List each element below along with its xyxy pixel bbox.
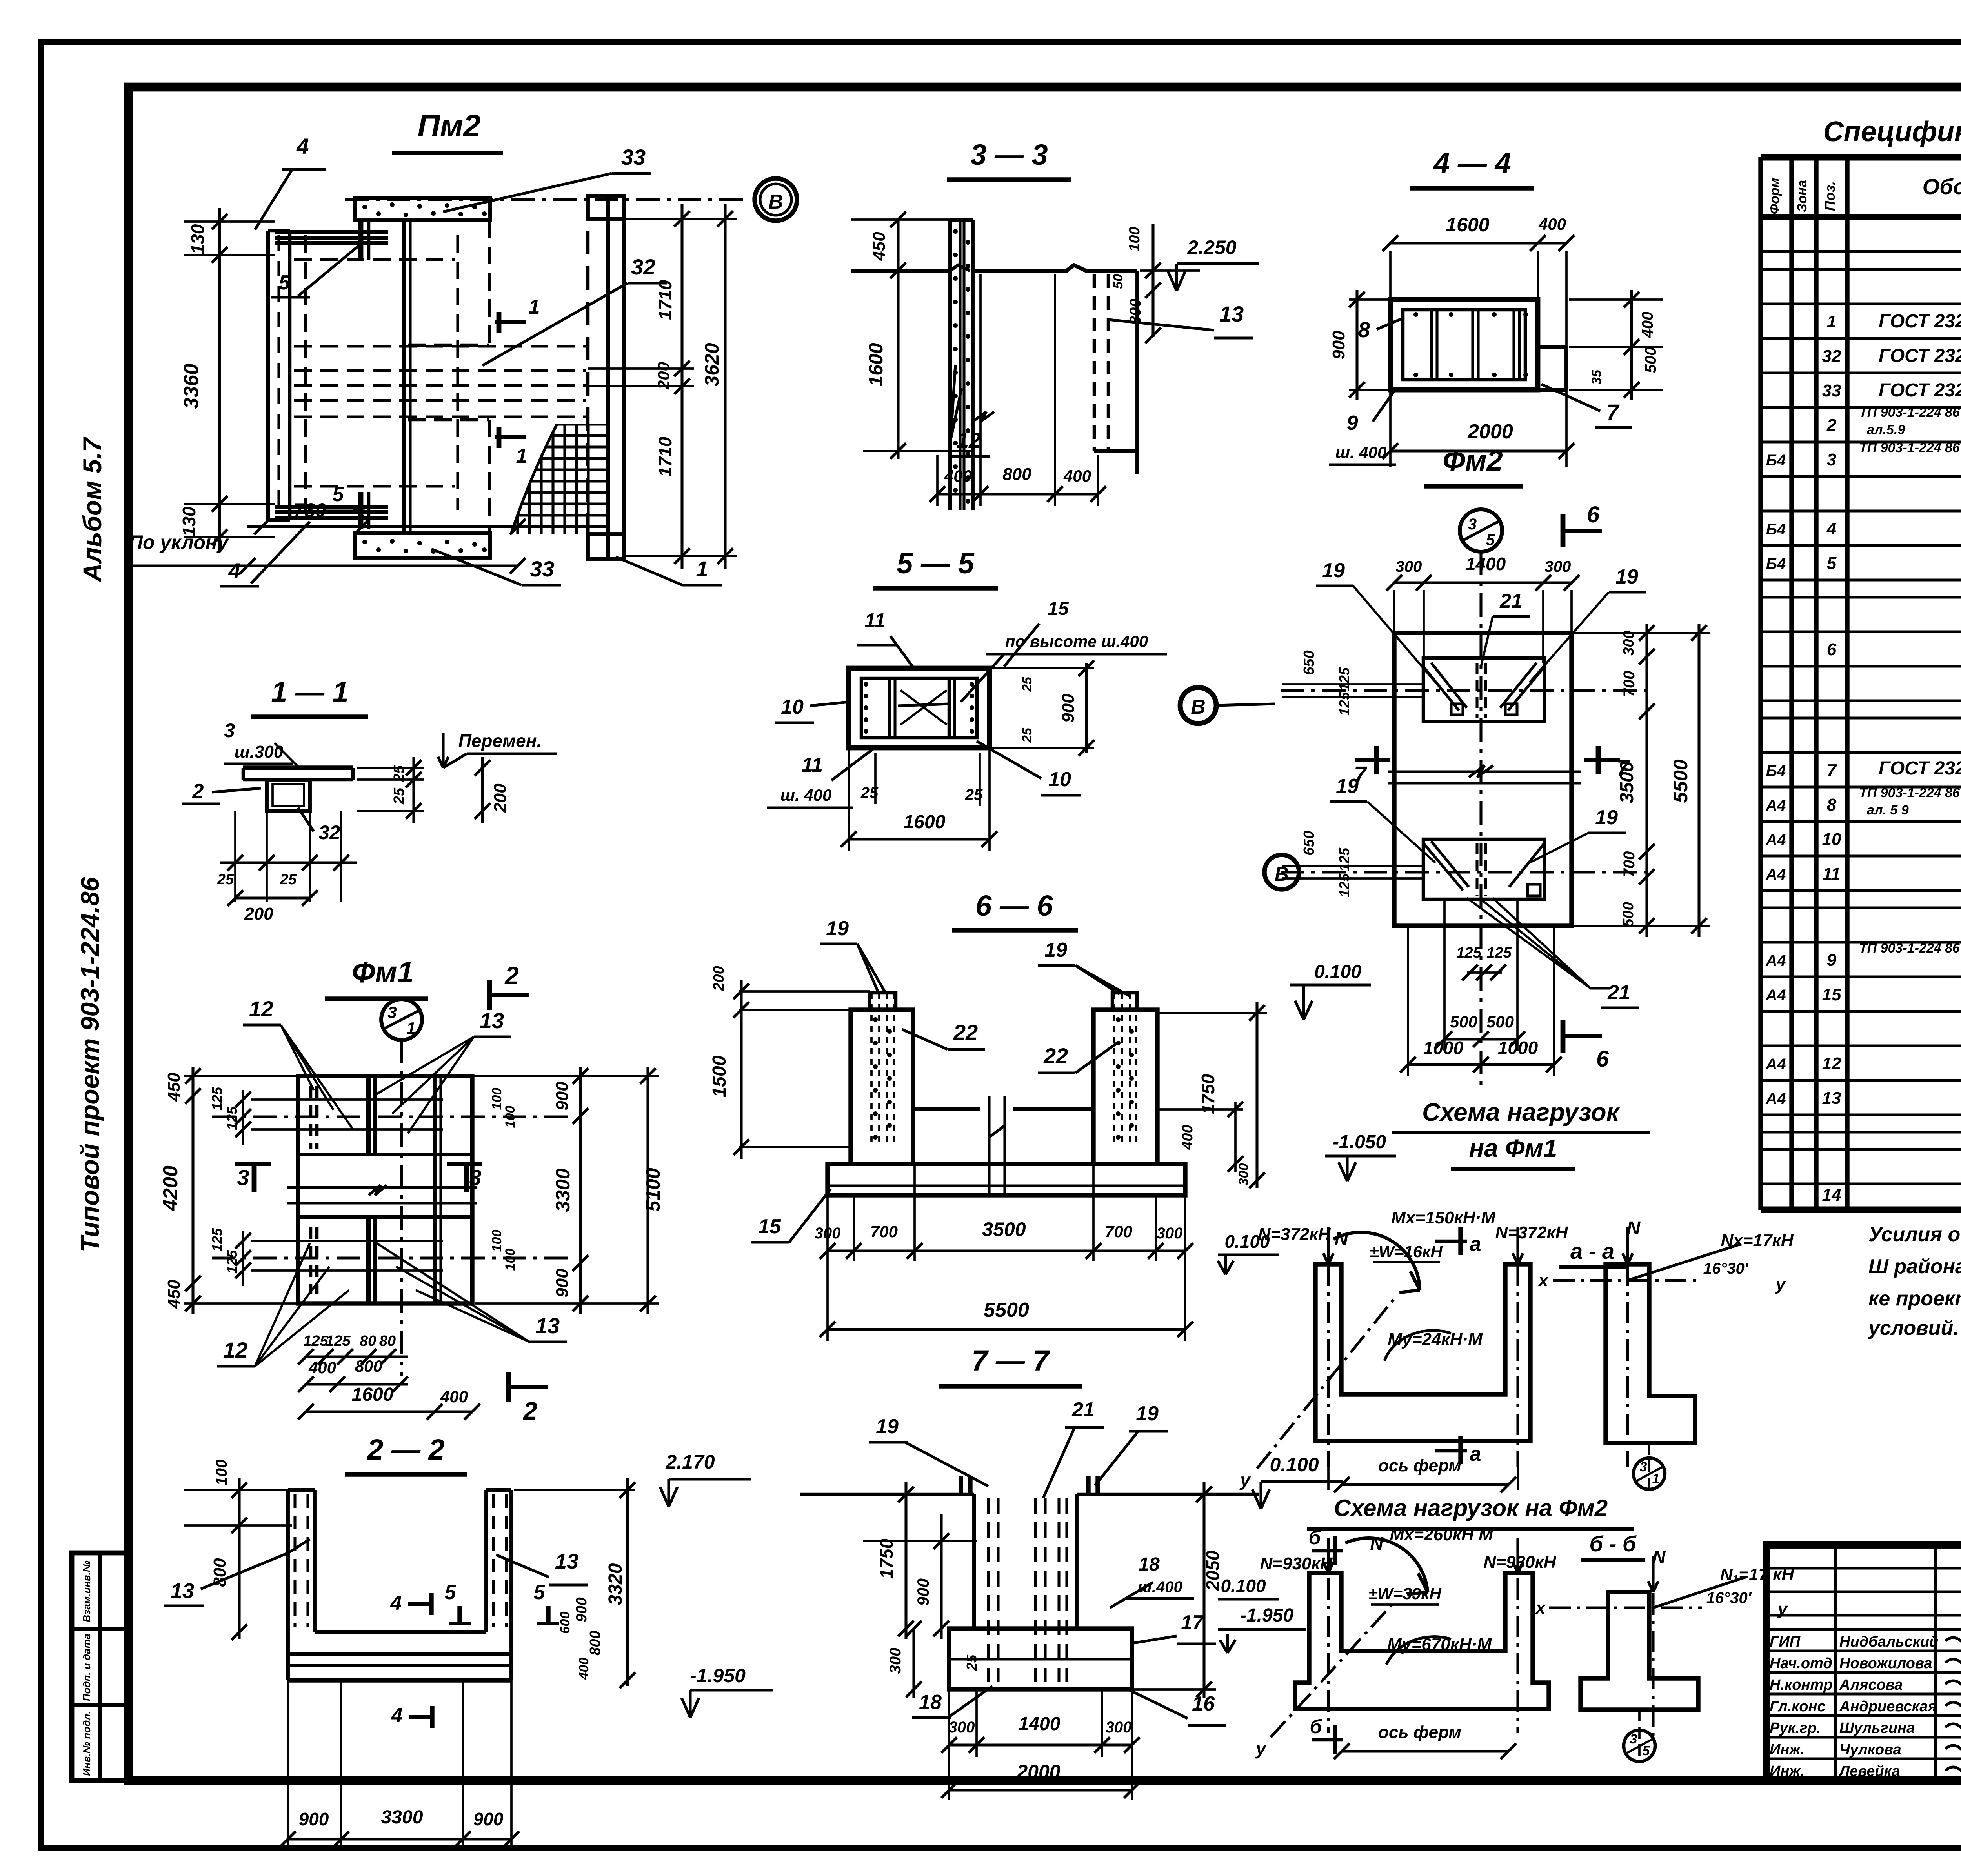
svg-text:7: 7 [1827, 761, 1837, 780]
svg-text:125: 125 [1336, 847, 1352, 871]
svg-text:700: 700 [1621, 851, 1638, 878]
svg-text:0.100: 0.100 [1224, 1231, 1270, 1252]
svg-text:6: 6 [1827, 640, 1837, 659]
svg-text:100: 100 [489, 1088, 504, 1110]
svg-text:-1.950: -1.950 [1240, 1605, 1293, 1626]
svg-text:32: 32 [318, 822, 340, 843]
svg-text:1750: 1750 [876, 1538, 897, 1579]
svg-text:5: 5 [333, 483, 344, 506]
svg-text:13: 13 [535, 1313, 560, 1338]
svg-text:а: а [1470, 1443, 1481, 1465]
svg-text:ГОСТ 23279-85: ГОСТ 23279-85 [1879, 311, 1961, 332]
svg-text:125: 125 [209, 1087, 225, 1111]
svg-text:N=930кН: N=930кН [1260, 1554, 1333, 1573]
svg-text:ТП 903-1-224 86: ТП 903-1-224 86 [1859, 785, 1960, 800]
svg-text:80: 80 [379, 1333, 396, 1349]
svg-text:100: 100 [1126, 227, 1143, 251]
svg-text:4 — 4: 4 — 4 [1433, 147, 1511, 180]
svg-text:2: 2 [1826, 416, 1837, 435]
svg-text:Зона: Зона [1795, 180, 1810, 212]
svg-text:1 — 1: 1 — 1 [271, 676, 348, 708]
svg-text:100: 100 [489, 1230, 504, 1252]
svg-text:300: 300 [949, 1719, 975, 1736]
svg-text:N: N [1627, 1218, 1641, 1239]
svg-text:1: 1 [529, 296, 540, 318]
svg-text:900: 900 [1059, 694, 1078, 723]
svg-text:400: 400 [1538, 215, 1566, 233]
svg-text:400: 400 [944, 467, 972, 485]
svg-text:ТП 903-1-224 86: ТП 903-1-224 86 [1859, 440, 1960, 455]
svg-text:А4: А4 [1765, 797, 1786, 814]
svg-text:400: 400 [1639, 312, 1656, 338]
svg-text:х: х [1538, 1271, 1549, 1290]
svg-text:200: 200 [654, 362, 673, 390]
svg-text:13: 13 [171, 1579, 194, 1603]
svg-text:35: 35 [1589, 369, 1604, 385]
svg-text:12: 12 [1822, 1054, 1841, 1073]
svg-text:Инж.: Инж. [1770, 1763, 1805, 1780]
svg-text:130: 130 [187, 224, 208, 254]
svg-text:В: В [1275, 863, 1289, 885]
svg-text:у: у [1255, 1738, 1267, 1759]
svg-text:3: 3 [1630, 1732, 1637, 1747]
svg-text:3620: 3620 [701, 343, 723, 386]
svg-text:125: 125 [209, 1228, 225, 1252]
svg-text:125: 125 [1486, 945, 1512, 961]
svg-text:650: 650 [1301, 650, 1317, 675]
svg-text:Пм2: Пм2 [417, 108, 480, 143]
svg-text:Спецификация на Пм2,Фм1: Спецификация на Пм2,Фм1 [1823, 116, 1961, 147]
svg-text:ось ферм: ось ферм [1378, 1456, 1461, 1475]
svg-text:5500: 5500 [1670, 759, 1692, 803]
svg-text:а - а: а - а [1570, 1239, 1614, 1263]
svg-text:11: 11 [1823, 864, 1841, 883]
svg-text:13: 13 [1219, 302, 1244, 326]
svg-text:Мх=260кН М: Мх=260кН М [1390, 1525, 1493, 1544]
svg-text:Б4: Б4 [1766, 521, 1786, 538]
svg-text:2: 2 [523, 1397, 537, 1425]
svg-text:700: 700 [1105, 1222, 1132, 1241]
svg-text:14: 14 [1822, 1185, 1841, 1205]
svg-text:1600: 1600 [352, 1384, 394, 1405]
svg-text:Типовой проект 903-1-224.86: Типовой проект 903-1-224.86 [75, 876, 104, 1252]
svg-text:Обозначение: Обозначение [1923, 174, 1961, 199]
svg-text:±W=16кН: ±W=16кН [1370, 1242, 1443, 1261]
svg-text:ГОСТ 23279-85: ГОСТ 23279-85 [1879, 345, 1961, 366]
svg-text:3500: 3500 [982, 1218, 1026, 1240]
svg-text:Форм: Форм [1767, 178, 1782, 215]
svg-text:2: 2 [192, 780, 204, 803]
svg-text:Б4: Б4 [1766, 762, 1786, 780]
svg-text:Гл.конс: Гл.конс [1770, 1698, 1826, 1715]
svg-text:13: 13 [1822, 1089, 1841, 1108]
svg-text:200: 200 [491, 783, 510, 813]
svg-text:Рук.гр.: Рук.гр. [1770, 1720, 1821, 1736]
svg-text:125: 125 [1336, 692, 1352, 716]
svg-text:25: 25 [1020, 727, 1035, 743]
svg-text:8: 8 [1358, 317, 1370, 342]
svg-text:10: 10 [781, 696, 804, 718]
svg-text:125: 125 [1336, 667, 1352, 691]
svg-text:ТП 903-1-224 86: ТП 903-1-224 86 [1859, 405, 1960, 420]
svg-text:19: 19 [1044, 939, 1067, 962]
svg-text:2: 2 [504, 962, 519, 990]
svg-text:б - б: б - б [1589, 1531, 1636, 1556]
svg-text:2.250: 2.250 [1187, 236, 1236, 258]
svg-text:19: 19 [1136, 1402, 1159, 1425]
svg-text:Мх=150кН·М: Мх=150кН·М [1391, 1208, 1496, 1227]
svg-text:15: 15 [1822, 985, 1841, 1004]
svg-text:700: 700 [870, 1222, 898, 1241]
svg-text:300: 300 [1106, 1719, 1132, 1736]
svg-text:300: 300 [1236, 1163, 1251, 1186]
svg-text:ГИП: ГИП [1770, 1634, 1801, 1650]
svg-text:Новожилова: Новожилова [1839, 1655, 1932, 1672]
svg-text:22: 22 [953, 1020, 978, 1045]
svg-text:2000: 2000 [1016, 1761, 1060, 1783]
svg-text:Н.контр: Н.контр [1770, 1677, 1832, 1693]
svg-text:-1.950: -1.950 [690, 1665, 746, 1687]
svg-text:16°30′: 16°30′ [1706, 1589, 1752, 1607]
svg-text:900: 900 [1329, 331, 1348, 360]
svg-text:А4: А4 [1765, 1056, 1786, 1073]
svg-text:х: х [1535, 1598, 1546, 1618]
svg-text:800: 800 [1002, 465, 1031, 484]
svg-text:9: 9 [1347, 412, 1358, 434]
svg-text:-1.050: -1.050 [1333, 1132, 1386, 1153]
svg-text:1750: 1750 [1198, 1074, 1218, 1114]
svg-text:900: 900 [914, 1578, 932, 1606]
svg-text:Ш района. Величина корректиру: Ш района. Величина корректируется при пр… [1868, 1255, 1961, 1278]
svg-text:у: у [1239, 1470, 1251, 1490]
svg-text:4: 4 [1826, 519, 1836, 538]
svg-text:3: 3 [387, 1003, 397, 1022]
svg-text:100: 100 [503, 1106, 518, 1128]
svg-text:13: 13 [555, 1550, 578, 1573]
svg-text:В: В [1191, 696, 1206, 718]
svg-text:ось ферм: ось ферм [1378, 1723, 1461, 1742]
svg-text:5: 5 [1643, 1743, 1650, 1758]
svg-text:450: 450 [164, 1280, 184, 1309]
svg-text:450: 450 [870, 232, 889, 261]
svg-text:Взам.инв.№: Взам.инв.№ [81, 1560, 93, 1622]
svg-text:80: 80 [360, 1333, 376, 1349]
svg-text:12: 12 [249, 996, 273, 1021]
svg-text:у: у [1775, 1275, 1786, 1294]
svg-text:Алясова: Алясова [1839, 1677, 1903, 1693]
svg-text:Схема нагрузок: Схема нагрузок [1422, 1098, 1621, 1126]
svg-text:2.170: 2.170 [665, 1451, 715, 1473]
svg-text:Нидбальский: Нидбальский [1839, 1634, 1938, 1650]
svg-text:125: 125 [326, 1333, 351, 1349]
svg-text:3: 3 [237, 1165, 249, 1190]
svg-text:19: 19 [1322, 559, 1345, 582]
svg-text:0.100: 0.100 [1270, 1454, 1319, 1476]
svg-text:Андриевская: Андриевская [1839, 1698, 1937, 1715]
svg-text:4: 4 [391, 1704, 403, 1727]
svg-text:125: 125 [1336, 873, 1352, 897]
svg-text:7: 7 [1606, 400, 1620, 424]
svg-text:Альбом 5.7: Альбом 5.7 [78, 436, 107, 583]
svg-text:13: 13 [480, 1008, 504, 1033]
svg-text:12: 12 [223, 1338, 247, 1362]
svg-text:условий.: условий. [1867, 1317, 1959, 1340]
svg-text:19: 19 [876, 1415, 899, 1438]
svg-text:ГОСТ 23279-85: ГОСТ 23279-85 [1879, 758, 1961, 779]
svg-text:Левейка: Левейка [1838, 1763, 1900, 1780]
svg-text:15: 15 [1048, 598, 1069, 619]
svg-text:300: 300 [1396, 558, 1422, 575]
svg-text:5: 5 [534, 1581, 546, 1604]
svg-text:1: 1 [406, 1019, 415, 1037]
svg-text:ш. 400: ш. 400 [1335, 443, 1387, 462]
svg-text:21: 21 [1499, 590, 1523, 613]
svg-text:400: 400 [1063, 467, 1091, 485]
svg-text:0.100: 0.100 [1314, 962, 1361, 982]
svg-text:б: б [1310, 1716, 1323, 1738]
svg-text:Поз.: Поз. [1822, 181, 1838, 211]
svg-text:3 — 3: 3 — 3 [970, 138, 1048, 171]
svg-text:100: 100 [213, 1460, 230, 1486]
svg-text:3: 3 [1640, 1460, 1647, 1474]
svg-text:±W=39кН: ±W=39кН [1368, 1584, 1442, 1603]
svg-text:650: 650 [1301, 831, 1317, 855]
svg-text:450: 450 [164, 1073, 184, 1102]
svg-text:33: 33 [621, 145, 646, 169]
svg-text:18: 18 [1139, 1554, 1160, 1575]
svg-text:А4: А4 [1765, 987, 1786, 1004]
svg-text:Чулкова: Чулкова [1839, 1741, 1901, 1758]
svg-text:33: 33 [1822, 381, 1841, 400]
svg-text:1400: 1400 [1019, 1714, 1061, 1734]
svg-text:В: В [768, 191, 783, 213]
svg-text:3300: 3300 [381, 1807, 423, 1828]
svg-text:ш. 400: ш. 400 [780, 786, 832, 804]
svg-text:4: 4 [390, 1592, 402, 1614]
svg-text:1710: 1710 [655, 280, 675, 320]
svg-text:0.100: 0.100 [1221, 1576, 1266, 1596]
svg-text:19: 19 [1595, 806, 1618, 829]
svg-text:900: 900 [553, 1082, 572, 1111]
svg-text:1600: 1600 [904, 812, 946, 833]
svg-text:Инж.: Инж. [1770, 1741, 1805, 1758]
svg-text:ал. 5 9: ал. 5 9 [1867, 803, 1909, 818]
svg-text:33: 33 [530, 556, 554, 581]
svg-text:б: б [1309, 1527, 1322, 1549]
svg-text:5 — 5: 5 — 5 [897, 547, 975, 580]
svg-text:Шульгина: Шульгина [1839, 1720, 1915, 1736]
svg-text:200: 200 [711, 966, 727, 991]
svg-text:300: 300 [1621, 631, 1637, 655]
svg-text:1400: 1400 [1466, 554, 1506, 574]
svg-text:Nх=17кН: Nх=17кН [1721, 1231, 1794, 1250]
svg-text:А4: А4 [1765, 952, 1786, 969]
svg-text:900: 900 [553, 1269, 572, 1298]
svg-text:3320: 3320 [605, 1563, 626, 1605]
svg-text:400: 400 [577, 1658, 591, 1680]
svg-text:21: 21 [1071, 1398, 1095, 1421]
svg-text:100: 100 [503, 1249, 518, 1271]
svg-text:125: 125 [1456, 945, 1481, 961]
svg-text:25: 25 [280, 871, 297, 888]
svg-text:А4: А4 [1765, 866, 1786, 883]
svg-text:25: 25 [391, 787, 407, 805]
svg-text:600: 600 [558, 1612, 573, 1634]
svg-text:9: 9 [1827, 951, 1837, 970]
svg-text:А4: А4 [1765, 831, 1786, 849]
svg-text:Б4: Б4 [1766, 555, 1786, 573]
svg-text:8: 8 [1827, 795, 1837, 814]
svg-text:17: 17 [1181, 1611, 1204, 1634]
svg-text:Перемен.: Перемен. [458, 731, 542, 751]
svg-text:3500: 3500 [1617, 761, 1637, 803]
svg-text:Подп. и дата: Подп. и дата [81, 1634, 93, 1701]
svg-text:125: 125 [303, 1333, 328, 1349]
svg-text:400: 400 [1179, 1125, 1196, 1150]
svg-text:12: 12 [957, 428, 981, 453]
svg-text:N: N [1370, 1533, 1383, 1554]
svg-text:ГОСТ 23279-85: ГОСТ 23279-85 [1879, 380, 1961, 401]
svg-text:21: 21 [1607, 981, 1630, 1004]
svg-text:N: N [1335, 1229, 1349, 1249]
svg-text:Фм1: Фм1 [352, 956, 414, 989]
svg-text:5: 5 [445, 1581, 457, 1604]
svg-text:Схема нагрузок на Фм2: Схема нагрузок на Фм2 [1334, 1495, 1608, 1521]
svg-text:900: 900 [299, 1809, 329, 1829]
svg-text:Фм2: Фм2 [1443, 444, 1503, 477]
svg-text:1600: 1600 [865, 343, 887, 386]
svg-text:16°30′: 16°30′ [1703, 1260, 1749, 1277]
svg-text:1: 1 [1827, 312, 1836, 331]
svg-text:22: 22 [1043, 1043, 1068, 1068]
svg-text:6: 6 [1587, 502, 1600, 527]
svg-text:6 — 6: 6 — 6 [975, 889, 1053, 922]
svg-text:4: 4 [296, 134, 309, 158]
svg-text:N₁=17 кН: N₁=17 кН [1720, 1565, 1794, 1584]
svg-text:19: 19 [1615, 565, 1638, 588]
svg-text:2000: 2000 [1467, 420, 1513, 443]
svg-text:N: N [1652, 1547, 1666, 1567]
svg-text:1: 1 [696, 556, 708, 581]
svg-text:400: 400 [308, 1358, 336, 1377]
svg-text:3360: 3360 [180, 364, 203, 409]
svg-text:Б4: Б4 [1766, 452, 1786, 469]
svg-text:3: 3 [224, 720, 235, 742]
svg-text:1710: 1710 [655, 436, 675, 477]
svg-text:32: 32 [1822, 347, 1841, 366]
svg-text:500: 500 [1486, 1013, 1514, 1031]
svg-text:1: 1 [516, 445, 528, 467]
svg-text:а: а [1470, 1233, 1481, 1256]
svg-text:300: 300 [1545, 558, 1571, 575]
svg-text:400: 400 [440, 1387, 468, 1406]
svg-text:по высоте ш.400: по высоте ш.400 [1005, 632, 1148, 651]
svg-text:25: 25 [1020, 676, 1035, 692]
svg-text:1600: 1600 [1446, 214, 1489, 236]
svg-text:19: 19 [1336, 775, 1359, 798]
svg-text:2 — 2: 2 — 2 [366, 1433, 444, 1466]
svg-text:ке проекта в зависимости о: ке проекта в зависимости от местных [1868, 1287, 1961, 1310]
svg-text:11: 11 [864, 609, 886, 632]
svg-text:11: 11 [802, 754, 823, 776]
svg-text:у: у [1777, 1600, 1788, 1619]
svg-text:300: 300 [1157, 1225, 1183, 1242]
svg-text:700: 700 [1621, 671, 1638, 697]
svg-text:50: 50 [1111, 274, 1126, 289]
svg-text:4200: 4200 [159, 1165, 182, 1211]
svg-text:4: 4 [228, 558, 240, 583]
svg-text:ТП 903-1-224 86: ТП 903-1-224 86 [1859, 941, 1960, 956]
svg-text:500: 500 [1450, 1013, 1477, 1031]
svg-text:на Фм1: на Фм1 [1469, 1134, 1557, 1162]
svg-text:5: 5 [1486, 531, 1495, 549]
svg-text:ал.5.9: ал.5.9 [1867, 422, 1905, 437]
svg-text:1: 1 [1652, 1471, 1660, 1486]
svg-text:3: 3 [1827, 450, 1836, 469]
svg-text:25: 25 [391, 765, 407, 782]
svg-text:18: 18 [919, 1691, 942, 1714]
svg-text:32: 32 [631, 254, 655, 279]
svg-text:300: 300 [887, 1648, 904, 1674]
svg-text:500: 500 [1642, 347, 1659, 373]
svg-text:1500: 1500 [709, 1055, 730, 1097]
svg-text:800: 800 [355, 1357, 382, 1375]
svg-text:900: 900 [473, 1809, 504, 1829]
svg-text:10: 10 [1048, 768, 1071, 791]
svg-text:10: 10 [1822, 830, 1841, 849]
svg-text:200: 200 [244, 904, 273, 923]
svg-text:3: 3 [1468, 516, 1477, 533]
svg-text:6: 6 [1596, 1046, 1609, 1072]
svg-text:25: 25 [964, 1654, 980, 1671]
svg-text:Инв.№ подл.: Инв.№ подл. [81, 1711, 93, 1776]
svg-text:5500: 5500 [984, 1299, 1029, 1322]
svg-text:125: 125 [224, 1106, 240, 1130]
svg-text:19: 19 [826, 917, 849, 940]
svg-text:16: 16 [1192, 1692, 1215, 1715]
svg-text:15: 15 [758, 1215, 781, 1238]
svg-text:N=372кН: N=372кН [1495, 1223, 1568, 1242]
svg-text:5: 5 [1827, 554, 1837, 573]
svg-text:А4: А4 [1765, 1090, 1786, 1107]
svg-text:5100: 5100 [642, 1168, 664, 1211]
svg-text:25: 25 [217, 871, 234, 888]
svg-text:900: 900 [573, 1597, 590, 1622]
svg-text:5: 5 [279, 271, 291, 294]
svg-text:3: 3 [469, 1165, 481, 1190]
svg-text:500: 500 [1620, 902, 1637, 927]
svg-text:Нач.отд: Нач.отд [1770, 1655, 1832, 1672]
svg-text:По уклону: По уклону [129, 531, 229, 553]
svg-text:7 — 7: 7 — 7 [971, 1344, 1050, 1377]
svg-text:N=930кН: N=930кН [1484, 1552, 1557, 1572]
svg-text:2050: 2050 [1202, 1550, 1223, 1591]
svg-text:Усилия от ветровой нагрузки: Усилия от ветровой нагрузки W заданы для [1868, 1223, 1961, 1246]
svg-text:780: 780 [293, 499, 326, 521]
svg-text:800: 800 [587, 1631, 604, 1655]
svg-text:3300: 3300 [552, 1168, 574, 1212]
